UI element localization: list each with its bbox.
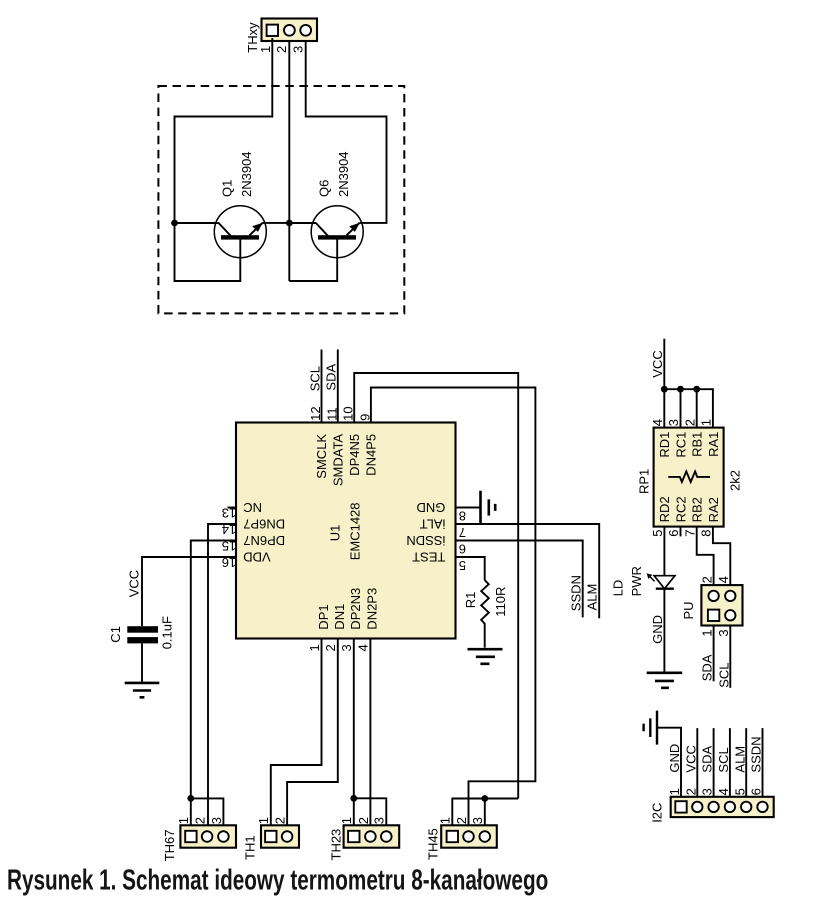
- pin name iALT: [420, 516, 446, 531]
- svg-text:5: 5: [732, 788, 747, 795]
- pin number 5 (I2C): [732, 788, 747, 795]
- svg-text:SCL: SCL: [307, 366, 322, 391]
- svg-text:DN1: DN1: [332, 604, 347, 630]
- svg-text:SCL: SCL: [716, 663, 731, 688]
- svg-text:TH45: TH45: [425, 828, 440, 860]
- pin number 3 (RP1): [666, 419, 681, 426]
- svg-text:PWR: PWR: [629, 566, 644, 596]
- svg-text:2: 2: [699, 576, 714, 583]
- svg-text:Rysunek 1. Schemat ideowy term: Rysunek 1. Schemat ideowy termometru 8-k…: [7, 866, 548, 897]
- svg-text:2: 2: [274, 46, 289, 53]
- pin number 12: [308, 406, 323, 420]
- pin number 2 (I2C): [683, 788, 698, 795]
- pin number 2 (THxy): [274, 46, 289, 53]
- value 0.1uF: [159, 616, 174, 649]
- svg-text:2: 2: [454, 817, 469, 824]
- svg-text:EMC1428: EMC1428: [347, 502, 362, 560]
- net label SSDN: [568, 575, 583, 611]
- pin name DN6P7: [243, 516, 285, 531]
- ground (LED): [647, 673, 683, 688]
- svg-text:1: 1: [307, 644, 322, 651]
- wire IC pin 2 to TH1 pin 2: [287, 639, 338, 826]
- svg-text:2: 2: [682, 419, 697, 426]
- connector TH1: [261, 825, 299, 847]
- svg-text:SDA: SDA: [700, 654, 715, 681]
- svg-text:SMCLK: SMCLK: [314, 434, 329, 479]
- wire IC pin 1 to TH1 pin 1: [271, 639, 322, 826]
- wire into Q1 collector: [175, 222, 220, 224]
- svg-text:DP1: DP1: [316, 604, 331, 629]
- pin number 4 (PU): [716, 576, 731, 583]
- wire TH67 pin 3 branch: [191, 798, 224, 825]
- svg-text:6: 6: [459, 541, 466, 556]
- wire pin 10 to TH45 pins 1+3: [354, 373, 518, 799]
- net label GND (LED): [650, 615, 665, 644]
- wire pin 16 VDD to C1: [142, 557, 236, 626]
- svg-text:VCC: VCC: [683, 745, 698, 772]
- wire Q1 base loop: [175, 223, 241, 281]
- wire TH45 pin 1 branch: [452, 799, 518, 826]
- svg-text:PU: PU: [681, 601, 696, 619]
- svg-text:RC1: RC1: [673, 432, 688, 458]
- pin number 2 (TH67): [193, 817, 208, 824]
- pin number 1 (TH45): [438, 817, 453, 824]
- pin name RB1: [690, 432, 705, 457]
- net label ALM (I2C): [732, 746, 747, 773]
- wire IC pin 4 to TH23 pin 2: [369, 639, 371, 826]
- pin name RB2: [690, 497, 705, 522]
- pin number 1 (TH23): [339, 817, 354, 824]
- svg-text:GND: GND: [417, 500, 446, 515]
- svg-text:3: 3: [700, 788, 715, 795]
- svg-text:2: 2: [683, 788, 698, 795]
- svg-text:13: 13: [222, 506, 236, 521]
- wire RP1 pin 8 to PU pin 4: [713, 527, 730, 591]
- svg-text:3: 3: [470, 817, 485, 824]
- pin number 10: [341, 406, 356, 420]
- pin name RD1: [657, 432, 672, 458]
- label C1: [108, 626, 123, 643]
- pin number 1 (THxy): [258, 46, 273, 53]
- svg-text:DP6N7: DP6N7: [243, 533, 285, 548]
- node junction A (Q1 base-collector tie): [171, 220, 178, 227]
- wire pin 9 to TH45 pin 2: [371, 388, 536, 826]
- svg-text:DN4P5: DN4P5: [364, 434, 379, 476]
- svg-text:iALT: iALT: [420, 516, 446, 531]
- pin name VDD: [243, 549, 270, 564]
- resistor network RP1: [654, 428, 724, 527]
- node junction (VCC-RP1 pin3): [677, 386, 684, 393]
- svg-text:2N3904: 2N3904: [239, 151, 254, 197]
- net label SCL: [307, 366, 322, 391]
- svg-text:TEST: TEST: [412, 549, 445, 564]
- value 110R: [493, 587, 508, 617]
- pin 8 GND stub: [456, 507, 481, 509]
- wire into Q6 collector: [289, 222, 316, 224]
- pin number 1 (I2C): [667, 788, 682, 795]
- svg-text:VCC: VCC: [127, 570, 142, 597]
- svg-text:RB2: RB2: [690, 497, 705, 522]
- svg-text:RB1: RB1: [690, 432, 705, 457]
- svg-text:6: 6: [749, 788, 764, 795]
- ground (I2C, left-facing): [644, 711, 657, 745]
- label THxy: [245, 22, 260, 53]
- label TH1: [242, 835, 257, 860]
- svg-text:RD2: RD2: [657, 496, 672, 522]
- pin number 1 (TH67): [176, 817, 191, 824]
- pin name DP1: [316, 604, 331, 629]
- label R1: [463, 592, 478, 609]
- svg-text:2: 2: [356, 817, 371, 824]
- net label VCC (left): [127, 570, 142, 597]
- node junction (VCC-RP1 pin2): [693, 386, 700, 393]
- pin number 2 (U1): [323, 644, 338, 651]
- svg-text:4: 4: [356, 644, 371, 651]
- wire pin 15 to TH67 pin 1: [191, 541, 236, 826]
- svg-text:110R: 110R: [493, 587, 508, 617]
- pin number 6 (I2C): [749, 788, 764, 795]
- resistor R1: [481, 580, 489, 647]
- pin number 7: [459, 525, 466, 540]
- label TH67: [162, 830, 177, 862]
- pin number 1 (U1): [307, 644, 322, 651]
- pin number 3 (PU): [716, 629, 731, 636]
- svg-text:ALM: ALM: [585, 584, 600, 611]
- svg-text:SSDN: SSDN: [749, 736, 764, 772]
- svg-text:2N3904: 2N3904: [336, 151, 351, 197]
- svg-text:1: 1: [667, 788, 682, 795]
- wire I2C pin 2 VCC stub: [696, 728, 698, 797]
- pin name DN4P5: [364, 434, 379, 476]
- pin number 2 (TH23): [356, 817, 371, 824]
- wire Q6 emitter to THxy pin3: [306, 41, 387, 223]
- net label SDA: [324, 364, 339, 391]
- svg-text:NC: NC: [243, 500, 262, 515]
- pin number 7 (RP1): [682, 530, 697, 537]
- svg-text:2: 2: [323, 644, 338, 651]
- wire pin 7 to ALM stub: [456, 524, 600, 618]
- svg-text:RA2: RA2: [706, 497, 721, 522]
- wire SDA stub (pin 11): [337, 350, 339, 423]
- pin 13 NC stub: [228, 507, 237, 509]
- wire Q6 base loop: [289, 238, 337, 282]
- svg-text:1: 1: [176, 817, 191, 824]
- svg-text:4: 4: [716, 788, 731, 795]
- wire I2C pin 1 to ground: [657, 728, 681, 797]
- svg-text:I2C: I2C: [650, 803, 665, 823]
- wire Q1 emitter to center node: [263, 222, 290, 224]
- svg-text:1: 1: [258, 46, 273, 53]
- capacitor C1: [127, 626, 158, 643]
- svg-text:3: 3: [716, 629, 731, 636]
- pin number 5 (RP1): [650, 530, 665, 537]
- svg-text:6: 6: [666, 530, 681, 537]
- node junction D (TH67 1+3 tie): [187, 795, 194, 802]
- LED LD: [647, 573, 675, 588]
- pin name TEST: [412, 549, 445, 564]
- pin number 1 (TH1): [256, 817, 271, 824]
- IC U1 EMC1428 body: [236, 423, 456, 639]
- pin name RA1: [706, 432, 721, 457]
- pin name RC2: [673, 496, 688, 522]
- wire IC pin 3 to TH23 pin 1: [353, 639, 355, 826]
- pin number 8: [459, 508, 466, 523]
- pin number 14: [222, 522, 236, 537]
- svg-text:16: 16: [222, 555, 236, 570]
- pin number 15: [222, 539, 236, 554]
- pin number 3 (U1): [339, 644, 354, 651]
- pin number 3 (TH45): [470, 817, 485, 824]
- figure caption: [7, 866, 548, 897]
- pin name DN1: [332, 604, 347, 630]
- svg-text:VDD: VDD: [243, 549, 270, 564]
- connector THxy: [262, 19, 318, 42]
- svg-text:7: 7: [682, 530, 697, 537]
- wire I2C pin 6 SSDN stub: [762, 728, 764, 797]
- net label SDA (I2C): [700, 746, 715, 773]
- pin name RD2: [657, 496, 672, 522]
- pin number 3 (I2C): [700, 788, 715, 795]
- svg-text:R1: R1: [463, 592, 478, 609]
- node junction C (TH23 1+3 tie): [350, 795, 357, 802]
- svg-text:Q6: Q6: [317, 180, 332, 197]
- svg-text:SDA: SDA: [324, 364, 339, 391]
- svg-text:C1: C1: [108, 626, 123, 643]
- svg-text:1: 1: [699, 419, 714, 426]
- svg-text:2: 2: [193, 817, 208, 824]
- net label SCL (I2C): [716, 747, 731, 772]
- svg-text:15: 15: [222, 539, 236, 554]
- connector TH67: [180, 825, 236, 847]
- svg-text:3: 3: [339, 644, 354, 651]
- pin name SMDATA: [331, 434, 346, 487]
- svg-text:DP4N5: DP4N5: [347, 434, 362, 476]
- pin number 4 (I2C): [716, 788, 731, 795]
- pin number 11: [324, 407, 339, 421]
- wire SCL stub (pin 12): [321, 350, 323, 423]
- svg-text:1: 1: [699, 629, 714, 636]
- connector TH45: [441, 825, 497, 847]
- pin number 3 (THxy): [291, 46, 306, 53]
- svg-text:2k2: 2k2: [728, 470, 743, 491]
- svg-text:11: 11: [324, 407, 339, 421]
- svg-text:1: 1: [339, 817, 354, 824]
- pin number 2 (TH45): [454, 817, 469, 824]
- svg-text:9: 9: [357, 414, 372, 421]
- svg-text:3: 3: [666, 419, 681, 426]
- pin name iSSDN: [406, 533, 445, 548]
- pin name GND: [417, 500, 446, 515]
- svg-text:3: 3: [372, 817, 387, 824]
- svg-text:5: 5: [459, 558, 466, 573]
- label I2C: [650, 803, 665, 823]
- wire THxy pin1 to Q1 collector net: [175, 38, 273, 223]
- pin number 5: [459, 558, 466, 573]
- svg-text:RP1: RP1: [636, 469, 651, 494]
- wire TH23 pin 3 branch: [354, 798, 387, 825]
- svg-text:RA1: RA1: [706, 432, 721, 457]
- wire RP1 pin 7 to PU pin 2: [697, 527, 714, 591]
- ground (R1): [468, 649, 503, 664]
- connector PU: [701, 585, 742, 625]
- label Q6 2N3904: [317, 151, 352, 197]
- svg-text:DP2N3: DP2N3: [348, 588, 363, 630]
- wire THxy pin2 down through center: [288, 41, 290, 281]
- svg-text:7: 7: [459, 525, 466, 540]
- pin number 2 (PU): [699, 576, 714, 583]
- label TH23: [328, 829, 343, 861]
- pin number 4 (U1): [356, 644, 371, 651]
- wire RP1 pin 6 stub: [680, 527, 682, 537]
- svg-text:SDA: SDA: [700, 746, 715, 773]
- net label SCL (PU): [716, 663, 731, 688]
- pin number 8 (RP1): [699, 530, 714, 537]
- wire RP1 pin 5 to LED: [663, 527, 665, 576]
- wire pin 6 to SSDN stub: [456, 541, 583, 618]
- transistor Q1: [214, 206, 266, 258]
- pin number 2 (RP1): [682, 419, 697, 426]
- wire I2C pin 4 SCL stub: [729, 728, 731, 797]
- wire LED to ground: [663, 589, 665, 673]
- svg-text:VCC: VCC: [650, 350, 665, 377]
- svg-text:3: 3: [209, 817, 224, 824]
- pin number 4 (RP1): [650, 419, 665, 426]
- net label GND (I2C): [667, 744, 682, 773]
- pin number 13: [222, 506, 236, 521]
- pin number 6 (RP1): [666, 530, 681, 537]
- svg-text:GND: GND: [650, 615, 665, 644]
- svg-text:4: 4: [650, 419, 665, 426]
- wire C1 to ground: [141, 644, 143, 683]
- svg-text:U1: U1: [328, 525, 343, 542]
- net label VCC (I2C): [683, 745, 698, 772]
- label U1 EMC1428: [328, 502, 363, 560]
- wire PU pin 3 SCL stub: [729, 626, 731, 688]
- svg-text:4: 4: [716, 576, 731, 583]
- pin number 3 (TH67): [209, 817, 224, 824]
- label Q1 2N3904: [220, 151, 255, 197]
- svg-text:0.1uF: 0.1uF: [159, 616, 174, 649]
- svg-text:TH67: TH67: [162, 830, 177, 862]
- svg-text:10: 10: [341, 406, 356, 420]
- pin name RC1: [673, 432, 688, 458]
- node junction E (TH45 1+3 tie): [481, 795, 488, 802]
- value 2k2: [728, 470, 743, 491]
- label LD PWR: [610, 566, 644, 596]
- svg-text:TH1: TH1: [242, 835, 257, 860]
- pin number 16: [222, 555, 236, 570]
- svg-text:5: 5: [650, 530, 665, 537]
- wire PU pin 1 SDA stub: [713, 626, 715, 682]
- svg-text:SCL: SCL: [716, 747, 731, 772]
- pin number 1 (PU): [699, 629, 714, 636]
- label RP1: [636, 469, 651, 494]
- pin name DP2N3: [348, 588, 363, 630]
- net label ALM: [585, 584, 600, 611]
- net label VCC (RP1): [650, 350, 665, 377]
- pin name NC: [243, 500, 262, 515]
- pin name RA2: [706, 497, 721, 522]
- pin number 9: [357, 414, 372, 421]
- wire pin 5 to R1: [456, 557, 485, 580]
- svg-text:RD1: RD1: [657, 432, 672, 458]
- pin number 3 (TH23): [372, 817, 387, 824]
- pin number 1 (RP1): [699, 419, 714, 426]
- svg-text:LD: LD: [610, 580, 625, 597]
- svg-text:SMDATA: SMDATA: [331, 434, 346, 487]
- svg-text:DN2P3: DN2P3: [365, 588, 380, 630]
- svg-text:8: 8: [699, 530, 714, 537]
- svg-text:12: 12: [308, 406, 323, 420]
- pin name DP6N7: [243, 533, 285, 548]
- wire I2C pin 3 SDA stub: [713, 728, 715, 797]
- label PU: [681, 601, 696, 619]
- pin number 2 (TH1): [273, 817, 288, 824]
- net label SSDN (I2C): [749, 736, 764, 772]
- svg-text:TH23: TH23: [328, 829, 343, 861]
- pin name SMCLK: [314, 434, 329, 479]
- ground (C1): [125, 683, 160, 697]
- svg-text:1: 1: [256, 817, 271, 824]
- transistor Q6: [311, 206, 363, 258]
- wire I2C pin 5 ALM stub: [745, 728, 747, 797]
- label TH45: [425, 828, 440, 860]
- wire pin 14 to TH67 pin 2: [208, 524, 236, 825]
- svg-text:RC2: RC2: [673, 496, 688, 522]
- node junction (VCC-RP1 pin4): [661, 386, 668, 393]
- pin name DP4N5: [347, 434, 362, 476]
- svg-text:SSDN: SSDN: [568, 575, 583, 611]
- wire VCC bus to RP1: [664, 339, 713, 428]
- svg-text:3: 3: [291, 46, 306, 53]
- svg-text:8: 8: [459, 508, 466, 523]
- svg-text:14: 14: [222, 522, 236, 537]
- pin name DN2P3: [365, 588, 380, 630]
- svg-text:GND: GND: [667, 744, 682, 773]
- svg-text:ALM: ALM: [732, 746, 747, 773]
- svg-text:DN6P7: DN6P7: [243, 516, 285, 531]
- svg-text:iSSDN: iSSDN: [406, 533, 445, 548]
- ground (pin 8, right-facing): [481, 491, 496, 524]
- svg-text:2: 2: [273, 817, 288, 824]
- net label SDA (PU): [700, 654, 715, 681]
- dashed enclosure box: [158, 86, 404, 313]
- node junction B (center): [286, 220, 293, 227]
- connector I2C: [671, 797, 774, 817]
- pin number 6: [459, 541, 466, 556]
- svg-text:Q1: Q1: [220, 180, 235, 197]
- wire TH45 pin 3 branch: [484, 799, 486, 826]
- connector TH23: [344, 825, 400, 847]
- svg-text:1: 1: [438, 817, 453, 824]
